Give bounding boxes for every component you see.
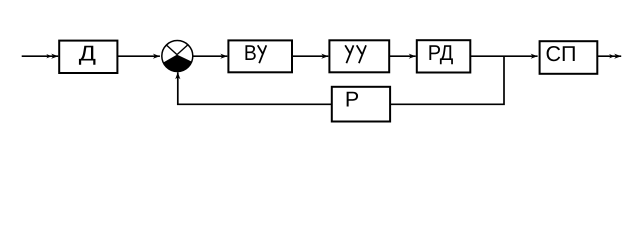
wire РД to СП <box>470 55 538 57</box>
wire ВУ to УУ <box>292 55 328 57</box>
label РД <box>428 41 454 65</box>
label УУ <box>345 45 366 63</box>
svg-text:СП: СП <box>546 42 577 66</box>
block СП <box>540 41 598 74</box>
block РД <box>417 40 471 72</box>
label Д <box>79 41 97 65</box>
label ВУ <box>244 41 257 65</box>
summing junction <box>162 41 193 72</box>
wire Д to summer <box>117 55 160 57</box>
svg-text:РД: РД <box>428 41 454 65</box>
wire output arrow <box>597 55 621 57</box>
wire УУ to РД <box>389 55 416 57</box>
wire input arrow <box>22 55 59 57</box>
block ВУ <box>228 40 292 72</box>
wire Р to left <box>178 72 332 104</box>
svg-text:В: В <box>244 41 257 65</box>
block Д <box>59 41 117 73</box>
wire summer to ВУ <box>193 55 227 57</box>
svg-text:Д: Д <box>79 41 97 65</box>
block Р <box>332 87 390 122</box>
block УУ <box>329 40 389 72</box>
node feedback junction <box>390 56 504 104</box>
svg-text:Р: Р <box>345 88 359 112</box>
